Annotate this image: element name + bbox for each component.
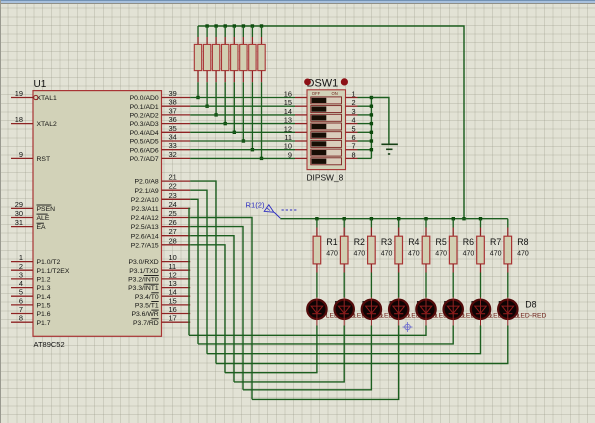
svg-text:12: 12 [169, 270, 177, 279]
wire RN8 to P0.7 net [260, 82, 263, 160]
svg-text:P3.2/INT0: P3.2/INT0 [128, 277, 159, 284]
svg-text:37: 37 [169, 106, 177, 115]
svg-text:18: 18 [15, 115, 23, 124]
svg-text:P0.4/AD4: P0.4/AD4 [130, 130, 159, 137]
wire P0.0 to DSW1 pin 16 [190, 97, 295, 99]
resistor R3 [368, 219, 376, 273]
svg-text:22: 22 [169, 182, 177, 191]
svg-text:P0.2/AD2: P0.2/AD2 [130, 113, 159, 120]
pin 11 (P3.1/TXD) [129, 262, 190, 275]
wire P2.0 to LED D8 [190, 181, 216, 363]
pin 14 (P3.4/T0) [135, 288, 190, 301]
wire P0.2 to DSW1 pin 14 [190, 114, 295, 116]
junction on network rail at RN3 [214, 24, 217, 27]
resistor R1 [313, 219, 321, 273]
DSW1 pin 6 (right) [346, 133, 358, 142]
network resistor RN1 [194, 26, 201, 82]
wire RN6 to P0.5 net [242, 82, 245, 143]
junction rail at R2 [343, 217, 346, 220]
DSW1 switch element 3 [311, 114, 342, 121]
wire ground bus to ground symbol [371, 98, 389, 145]
svg-text:ON: ON [332, 91, 338, 96]
svg-text:U1: U1 [34, 79, 47, 90]
wire DSW1 pin 6 to ground bus [358, 140, 372, 142]
DSW1 pin 1 (right) [346, 90, 358, 99]
svg-text:15: 15 [284, 98, 292, 107]
wire P2.7 to LED D1 [190, 245, 225, 373]
R1-R8 top rail wire [280, 218, 508, 220]
svg-text:P2.7/A15: P2.7/A15 [131, 242, 159, 249]
svg-text:P1.0/T2: P1.0/T2 [37, 259, 61, 266]
svg-text:P0.1/AD1: P0.1/AD1 [130, 104, 159, 111]
DSW1 pin 10 (left) [284, 142, 307, 151]
svg-text:27: 27 [169, 227, 177, 236]
wire DSW1 pin 4 to ground bus [358, 123, 372, 125]
svg-text:5: 5 [351, 124, 355, 133]
wire R4 to D4 [398, 273, 400, 298]
wire-edit cursor arrow [264, 205, 296, 218]
R5 labels [435, 237, 447, 257]
network resistor RN4 [222, 26, 229, 82]
junction on network rail at RN7 [251, 24, 254, 27]
R7 labels [490, 237, 502, 257]
resistor R5 [422, 219, 430, 273]
svg-text:29: 29 [15, 200, 23, 209]
svg-text:P0.5/AD5: P0.5/AD5 [130, 139, 159, 146]
wire P0.5 to DSW1 pin 11 [190, 140, 295, 142]
wire RN5 to P0.4 net [233, 82, 236, 134]
svg-text:P0.3/AD3: P0.3/AD3 [130, 121, 159, 128]
DSW1 toggle button right [341, 78, 348, 85]
svg-text:P1.2: P1.2 [37, 277, 51, 284]
svg-text:16: 16 [284, 90, 292, 99]
svg-text:470: 470 [326, 251, 338, 258]
svg-text:R4: R4 [408, 237, 419, 247]
svg-text:470: 470 [463, 251, 475, 258]
resistor R6 [449, 219, 457, 273]
svg-text:XTAL1: XTAL1 [37, 95, 57, 102]
U1 reference label [34, 79, 47, 90]
LED D8 [498, 298, 517, 326]
pin 21 (P2.0/A8) [135, 173, 191, 186]
svg-text:31: 31 [15, 218, 23, 227]
wire D2 cathode to P2 bus [234, 326, 344, 382]
R1 labels [326, 237, 338, 257]
resistor network common rail wire [198, 26, 464, 219]
pin 18 (XTAL2) [11, 115, 57, 128]
wire RN1 to P0.0 net [196, 82, 199, 99]
svg-text:P0.7/AD7: P0.7/AD7 [130, 156, 159, 163]
svg-text:3: 3 [351, 107, 355, 116]
svg-text:2: 2 [351, 98, 355, 107]
junction on network rail at RN5 [233, 24, 236, 27]
network resistor RN2 [203, 26, 210, 82]
pin 26 (P2.5/A13) [131, 218, 190, 231]
DSW1 pin 13 (left) [284, 116, 307, 125]
svg-text:R5: R5 [436, 237, 447, 247]
D4 labels [408, 299, 438, 319]
svg-text:P3.5/T1: P3.5/T1 [135, 303, 159, 310]
DIPSW_8 value label [307, 173, 344, 183]
wire R6 to D6 [452, 273, 454, 298]
pin 32 (P0.7/AD7) [130, 150, 191, 163]
svg-text:24: 24 [169, 200, 177, 209]
pin 6 (P1.5) [11, 296, 51, 309]
wire R2 to D2 [343, 273, 345, 298]
DSW1 pin 8 (right) [346, 150, 358, 159]
svg-text:R2: R2 [354, 237, 365, 247]
wire R3 to D3 [370, 273, 372, 298]
svg-text:R1: R1 [326, 237, 337, 247]
junction rail at R5 [424, 217, 427, 220]
DIP switch DSW1 body [307, 90, 346, 170]
svg-text:7: 7 [19, 305, 23, 314]
network resistor RN6 [240, 26, 247, 82]
wire R1 to D1 [316, 273, 318, 298]
svg-text:P1.7: P1.7 [37, 320, 51, 327]
junction on network rail at RN4 [224, 24, 227, 27]
pin 7 (P1.6) [11, 305, 51, 318]
DSW1 pin 12 (left) [284, 124, 307, 133]
pin 15 (P3.5/T1) [135, 296, 190, 309]
svg-text:P3.1/TXD: P3.1/TXD [129, 268, 159, 275]
pin 27 (P2.6/A14) [131, 227, 190, 240]
svg-text:470: 470 [435, 251, 447, 258]
wire P2.2 to LED D6 [190, 199, 198, 344]
svg-text:21: 21 [169, 173, 177, 182]
wire D8 cathode to P2 bus [216, 326, 508, 364]
svg-text:R7: R7 [490, 237, 501, 247]
pin 37 (P0.2/AD2) [130, 106, 191, 119]
net label R1(2) [246, 201, 265, 210]
junction rail at R3 [370, 217, 373, 220]
pin 34 (P0.5/AD5) [130, 133, 191, 146]
svg-text:470: 470 [517, 251, 529, 258]
wire R5 to D5 [425, 273, 427, 298]
XTAL1 pin circle marker [34, 95, 38, 99]
network resistor RN5 [231, 26, 238, 82]
D6 labels [462, 299, 492, 319]
DSW1 pin 3 (right) [346, 107, 358, 116]
network resistor RN7 [249, 26, 256, 82]
wire P0.1 to DSW1 pin 15 [190, 105, 295, 107]
pin 31 (EA) [11, 218, 46, 231]
svg-text:8: 8 [351, 150, 355, 159]
ground symbol [381, 144, 398, 154]
svg-text:P1.1/T2EX: P1.1/T2EX [37, 268, 70, 275]
svg-text:6: 6 [351, 133, 355, 142]
svg-text:LED-RED: LED-RED [517, 313, 547, 320]
pin 28 (P2.7/A15) [131, 236, 190, 249]
svg-text:P0.6/AD6: P0.6/AD6 [130, 147, 159, 154]
pin 33 (P0.6/AD6) [130, 141, 191, 154]
pin 3 (P1.2) [11, 270, 51, 283]
pin 19 (XTAL1) [11, 89, 57, 102]
junction rail at R6 [452, 217, 455, 220]
svg-text:P1.5: P1.5 [37, 303, 51, 310]
svg-text:P2.0/A8: P2.0/A8 [135, 179, 159, 186]
svg-text:P2.4/A12: P2.4/A12 [131, 215, 159, 222]
svg-text:R6: R6 [463, 237, 474, 247]
svg-text:470: 470 [490, 251, 502, 258]
svg-text:P1.3: P1.3 [37, 285, 51, 292]
junction rail drop onto R1-R8 rail [462, 217, 465, 220]
svg-text:17: 17 [169, 314, 177, 323]
pin 4 (P1.3) [11, 279, 51, 292]
svg-text:R3: R3 [381, 237, 392, 247]
svg-text:ALE: ALE [37, 215, 50, 222]
svg-text:14: 14 [169, 288, 177, 297]
AT89C52 value label [34, 340, 65, 349]
svg-text:PSEN: PSEN [37, 206, 56, 213]
DSW1 toggle button left [304, 79, 311, 86]
wire P0.7 to DSW1 pin 9 [190, 157, 295, 159]
svg-text:P3.6/WR: P3.6/WR [131, 311, 158, 318]
wire P0.6 to DSW1 pin 10 [190, 149, 295, 151]
R8 labels [517, 237, 529, 257]
junction ground bus row 4 [370, 122, 373, 125]
svg-text:RST: RST [37, 156, 51, 163]
svg-text:470: 470 [408, 251, 420, 258]
svg-text:7: 7 [351, 142, 355, 151]
junction ground bus row 7 [370, 148, 373, 151]
svg-text:38: 38 [169, 98, 177, 107]
pin 30 (ALE) [11, 209, 50, 222]
pin 29 (PSEN) [11, 200, 55, 213]
pin 36 (P0.3/AD3) [130, 115, 191, 128]
svg-text:16: 16 [169, 305, 177, 314]
wire D4 cathode to P2 bus [252, 326, 399, 400]
junction on network rail at RN8 [260, 24, 263, 27]
junction rail at R7 [479, 217, 482, 220]
svg-text:P3.0/RXD: P3.0/RXD [128, 259, 158, 266]
wire P2.5 to LED D3 [190, 227, 243, 390]
svg-text:P1.6: P1.6 [37, 311, 51, 318]
junction ground bus row 1 [370, 96, 373, 99]
network resistor RN3 [212, 26, 219, 82]
D8 labels [517, 299, 547, 319]
wire RN2 to P0.1 net [205, 82, 208, 108]
wire D3 cathode to P2 bus [243, 326, 371, 390]
svg-text:23: 23 [169, 191, 177, 200]
DSW1 switch element 7 [311, 149, 342, 156]
svg-text:P3.4/T0: P3.4/T0 [135, 294, 159, 301]
svg-text:10: 10 [284, 142, 292, 151]
junction on network rail at RN2 [205, 24, 208, 27]
svg-text:9: 9 [19, 150, 23, 159]
svg-text:P2.3/A11: P2.3/A11 [131, 206, 159, 213]
DSW1 switch element 6 [311, 140, 342, 147]
DSW1 switch element 2 [311, 106, 342, 113]
svg-text:25: 25 [169, 209, 177, 218]
wire DSW1 pin 3 to ground bus [358, 114, 372, 116]
DSW1 pin 9 (left) [288, 150, 307, 159]
D3 labels [380, 299, 410, 319]
svg-text:1: 1 [351, 90, 355, 99]
DSW1 pin 2 (right) [346, 98, 358, 107]
LED D7 [471, 298, 490, 326]
svg-text:P2.1/A9: P2.1/A9 [135, 188, 159, 195]
svg-text:13: 13 [284, 116, 292, 125]
R3 labels [381, 237, 393, 257]
svg-text:D8: D8 [525, 299, 536, 309]
wire P0.4 to DSW1 pin 12 [190, 131, 295, 133]
pin 35 (P0.4/AD4) [130, 124, 191, 137]
resistor R7 [477, 219, 485, 273]
wire P2.1 to LED D7 [190, 190, 207, 354]
D1 labels [326, 299, 356, 319]
wire D6 cathode to P2 bus [198, 326, 453, 344]
D7 labels [489, 299, 519, 319]
D2 labels [353, 299, 383, 319]
svg-text:35: 35 [169, 124, 177, 133]
svg-text:1: 1 [19, 253, 23, 262]
svg-text:P0.0/AD0: P0.0/AD0 [130, 95, 159, 102]
pin 8 (P1.7) [11, 314, 51, 327]
DSW1 pin 5 (right) [346, 124, 358, 133]
svg-text:DSW1: DSW1 [307, 78, 339, 90]
svg-text:36: 36 [169, 115, 177, 124]
DSW1 pin 11 (left) [284, 133, 307, 142]
pin 23 (P2.2/A10) [131, 191, 190, 204]
DSW1 reference label [307, 78, 339, 90]
svg-text:26: 26 [169, 218, 177, 227]
svg-text:11: 11 [284, 133, 292, 142]
R4 labels [408, 237, 420, 257]
junction rail at R1 [315, 217, 318, 220]
svg-text:470: 470 [381, 251, 393, 258]
svg-text:P2.5/A13: P2.5/A13 [131, 224, 159, 231]
R2 labels [354, 237, 366, 257]
wire R7 to D7 [480, 273, 482, 298]
resistor R8 [504, 219, 512, 273]
svg-text:R8: R8 [517, 237, 528, 247]
wire P2.4 to LED D4 [190, 218, 252, 400]
pin 25 (P2.4/A12) [131, 209, 190, 222]
pin 5 (P1.4) [11, 288, 51, 301]
svg-text:470: 470 [354, 251, 366, 258]
svg-text:XTAL2: XTAL2 [37, 121, 57, 128]
svg-text:39: 39 [169, 89, 177, 98]
svg-text:DIPSW_8: DIPSW_8 [307, 173, 344, 183]
wire RN7 to P0.6 net [251, 82, 254, 151]
wire P2.6 to LED D2 [190, 236, 234, 382]
LED D2 [335, 298, 354, 326]
pin 10 (P3.0/RXD) [128, 253, 190, 266]
ground bus vertical wire [370, 98, 372, 159]
DSW1 pin 7 (right) [346, 142, 358, 151]
DSW1 pin 4 (right) [346, 116, 358, 125]
svg-text:P3.7/RD: P3.7/RD [133, 320, 159, 327]
wire RN3 to P0.2 net [214, 82, 217, 116]
DSW1 pin 14 (left) [284, 107, 307, 116]
wire P2.3 to LED D5 [189, 208, 190, 335]
svg-text:30: 30 [15, 209, 23, 218]
DSW1 pin 15 (left) [284, 98, 307, 107]
pin 13 (P3.3/INT1) [128, 279, 190, 292]
junction on network rail at RN6 [242, 24, 245, 27]
wire DSW1 pin 8 to ground bus [358, 157, 372, 159]
svg-text:AT89C52: AT89C52 [34, 340, 65, 349]
svg-text:34: 34 [169, 133, 177, 142]
svg-text:OFF: OFF [312, 91, 321, 96]
DSW1 pin 16 (left) [284, 90, 307, 99]
origin marker [403, 322, 413, 332]
pin 12 (P3.2/INT0) [128, 270, 190, 283]
svg-text:P2.6/A14: P2.6/A14 [131, 233, 159, 240]
wire DSW1 pin 2 to ground bus [358, 105, 372, 107]
pin 22 (P2.1/A9) [135, 182, 191, 195]
junction ground bus row 2 [370, 105, 373, 108]
svg-text:4: 4 [351, 116, 355, 125]
svg-text:33: 33 [169, 141, 177, 150]
DSW1 switch element 8 [311, 158, 342, 165]
R6 labels [463, 237, 475, 257]
wire D5 cathode to P2 bus [189, 326, 426, 336]
pin 38 (P0.1/AD1) [130, 98, 191, 111]
wire D1 cathode to P2 bus [225, 326, 317, 373]
wire DSW1 pin 5 to ground bus [358, 131, 372, 133]
svg-text:12: 12 [284, 124, 292, 133]
svg-text:P1.4: P1.4 [37, 294, 51, 301]
svg-text:19: 19 [15, 89, 23, 98]
wire DSW1 pin 7 to ground bus [358, 149, 372, 151]
LED D6 [444, 298, 463, 326]
svg-text:5: 5 [19, 288, 23, 297]
pin 2 (P1.1/T2EX) [11, 262, 70, 275]
pin 16 (P3.6/WR) [131, 305, 190, 318]
wire DSW1 pin 1 to ground bus [358, 97, 372, 99]
wire D7 cathode to P2 bus [207, 326, 481, 354]
LED D5 [416, 298, 435, 326]
svg-text:10: 10 [169, 253, 177, 262]
DSW1 switch element 5 [311, 132, 342, 139]
junction rail at R4 [397, 217, 400, 220]
resistor R2 [340, 219, 348, 273]
wire R8 to D8 [507, 273, 509, 298]
pin 9 (RST) [11, 150, 50, 163]
pin 24 (P2.3/A11) [131, 200, 190, 213]
svg-text:9: 9 [288, 150, 292, 159]
svg-text:P2.2/A10: P2.2/A10 [131, 197, 159, 204]
wire P0.3 to DSW1 pin 13 [190, 123, 295, 125]
resistor R4 [395, 219, 403, 273]
junction ground bus row 3 [370, 113, 373, 116]
svg-text:P3.3/INT1: P3.3/INT1 [128, 285, 159, 292]
svg-text:32: 32 [169, 150, 177, 159]
D5 labels [435, 299, 465, 319]
microcontroller U1 AT89C52 body [33, 91, 162, 337]
LED D4 [389, 298, 408, 326]
wire RN4 to P0.3 net [224, 82, 227, 125]
junction ground bus row 5 [370, 131, 373, 134]
DSW1 switch element 1 [311, 97, 342, 104]
LED D1 [307, 298, 326, 326]
pin 17 (P3.7/RD) [133, 314, 190, 327]
svg-text:EA: EA [37, 224, 47, 231]
svg-text:28: 28 [169, 236, 177, 245]
pin 1 (P1.0/T2) [11, 253, 61, 266]
DSW1 switch element 4 [311, 123, 342, 130]
network resistor RN8 [258, 26, 265, 82]
svg-text:8: 8 [19, 314, 23, 323]
pin 39 (P0.0/AD0) [130, 89, 191, 102]
svg-text:R1(2): R1(2) [246, 201, 265, 210]
svg-text:14: 14 [284, 107, 292, 116]
junction ground bus row 6 [370, 139, 373, 142]
LED D3 [362, 298, 381, 326]
svg-text:3: 3 [19, 270, 23, 279]
